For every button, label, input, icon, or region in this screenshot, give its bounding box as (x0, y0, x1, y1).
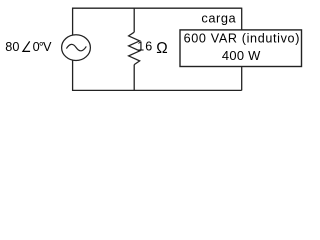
load box (180, 30, 302, 67)
wire right-top drop to load box (241, 8, 243, 31)
wire left-top (72, 8, 74, 35)
svg-text:carga: carga (201, 10, 236, 25)
svg-text:0°V: 0°V (33, 40, 52, 54)
wire right-bottom from load box (241, 67, 243, 91)
svg-text:80: 80 (5, 40, 19, 54)
ac source sine wave (66, 44, 86, 50)
wire bottom (72, 89, 242, 91)
resistor bottom lead (133, 65, 135, 91)
ac source V1 circle (62, 35, 91, 61)
svg-text:600 VAR (indutivo): 600 VAR (indutivo) (184, 32, 300, 46)
resistor R 16ohm zigzag (129, 32, 140, 64)
resistor top lead (133, 8, 135, 33)
svg-text:Ω: Ω (156, 40, 167, 57)
wire left-bottom (72, 60, 74, 91)
wire top (72, 7, 242, 9)
angle symbol of phasor (23, 41, 30, 51)
svg-text:400 W: 400 W (222, 48, 261, 63)
svg-text:16: 16 (137, 40, 153, 54)
